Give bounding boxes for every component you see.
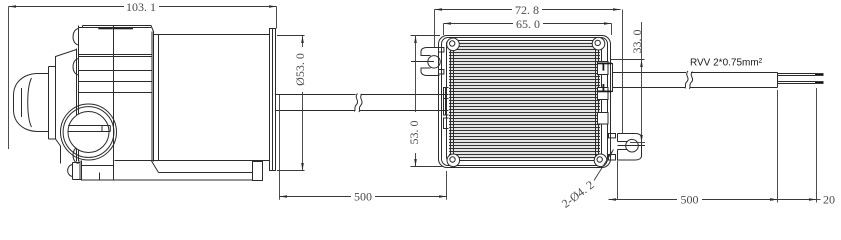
svg-text:103. 1: 103. 1 (126, 0, 156, 14)
dimension 103.1 (9, 7, 277, 150)
dimension 500 right (609, 90, 778, 203)
svg-text:500: 500 (681, 193, 699, 207)
controller fin plate frame (447, 41, 602, 161)
left cable (276, 95, 449, 111)
left cable break symbol (355, 94, 363, 113)
right cable exit boss (598, 62, 609, 125)
pump inlet collar (49, 50, 77, 164)
controller outer shell (439, 36, 611, 168)
svg-text:RVV 2*0.75mm²: RVV 2*0.75mm² (690, 58, 763, 69)
svg-text:72. 8: 72. 8 (515, 3, 539, 17)
svg-text:500: 500 (354, 190, 372, 204)
cooling fins (449, 44, 600, 158)
left mounting tab (411, 48, 444, 76)
svg-text:53. 0: 53. 0 (407, 121, 421, 145)
head bottom stub (68, 161, 114, 181)
dimension 65.0 (444, 24, 612, 36)
right cable (613, 73, 778, 88)
left cable entry boss (444, 88, 449, 129)
motor end cap plate (270, 29, 276, 171)
dimension 20 (778, 88, 821, 203)
stripped wires (778, 74, 816, 84)
svg-text:20: 20 (823, 193, 835, 207)
motor base foot (82, 161, 263, 181)
corner screws (447, 38, 460, 51)
dimension 33.0 (611, 22, 645, 143)
motor body (115, 35, 270, 161)
outlet port circles (61, 104, 117, 160)
dimension 72.8 (435, 10, 623, 134)
fin side rails (451, 41, 599, 160)
bottom right mounting tab (609, 134, 646, 161)
pump inlet dome (14, 74, 49, 132)
dimension diameter 53.0 pump (277, 36, 305, 171)
screw bosses (73, 29, 78, 164)
svg-text:33. 0: 33. 0 (630, 30, 644, 54)
svg-text:Ø53. 0: Ø53. 0 (293, 53, 307, 86)
right cable break symbol (685, 71, 693, 89)
dimension 53.0 unit (411, 36, 444, 167)
svg-text:65. 0: 65. 0 (516, 17, 540, 31)
pump head body (77, 26, 154, 162)
head top edge dashes (98, 28, 133, 29)
label 2-diameter 4.2 with leader (594, 150, 614, 181)
dimension 500 left (280, 95, 447, 200)
